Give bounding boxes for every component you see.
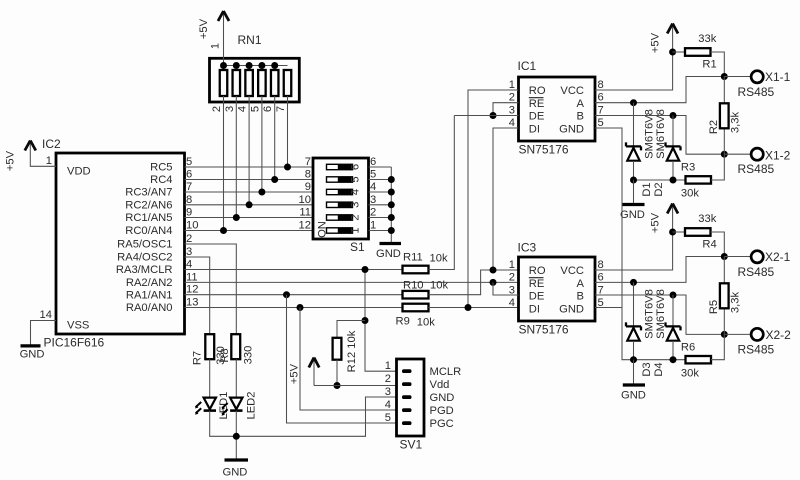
wire IC1 DE to R11 riser (454, 115, 518, 117)
junction D2 gnd (670, 177, 677, 184)
wire RA1/AN1 line to R10 (185, 294, 403, 296)
svg-text:5: 5 (350, 176, 362, 182)
junction X2-2 node (721, 331, 728, 338)
LED1 (195, 392, 230, 420)
SV1 pin marks (402, 369, 412, 425)
connector SV1 box (397, 359, 425, 452)
wire RA2/AN2 line to IC3 pin2 (185, 281, 519, 283)
svg-text:DE: DE (529, 291, 545, 303)
svg-text:Vdd: Vdd (430, 379, 450, 391)
resistor R9 (396, 304, 436, 329)
svg-text:D3: D3 (641, 362, 653, 376)
svg-text:3: 3 (224, 106, 236, 112)
ground at LEDs (223, 460, 249, 479)
junction RN1-RC4 (271, 176, 278, 183)
svg-text:30k: 30k (681, 188, 699, 200)
resistor R12 (333, 330, 358, 372)
IC3 inner pin labels (529, 265, 546, 315)
svg-text:8: 8 (598, 79, 604, 91)
svg-text:RA2/AN2: RA2/AN2 (126, 277, 173, 289)
svg-text:RC2/AN6: RC2/AN6 (125, 200, 172, 212)
svg-text:2: 2 (350, 214, 362, 220)
junction IC1 DI / IC3 RO (490, 267, 497, 274)
+5V supply symbol IC3 (650, 204, 679, 234)
wire RC5 line (pin5) (185, 166, 314, 168)
svg-text:1: 1 (46, 155, 52, 167)
svg-text:10k: 10k (430, 253, 448, 265)
svg-text:R9: R9 (396, 316, 410, 328)
resistor R11 (403, 252, 448, 274)
svg-text:RA0/AN0: RA0/AN0 (126, 302, 173, 314)
svg-text:RC3/AN7: RC3/AN7 (125, 187, 172, 199)
svg-text:5: 5 (186, 156, 192, 168)
S1 bus junctions (388, 176, 395, 234)
svg-text:VCC: VCC (560, 265, 584, 277)
wire R6 to X2-2 node (711, 334, 724, 359)
svg-text:RA1/AN1: RA1/AN1 (126, 289, 173, 301)
wire R4 to X2-1 node (711, 232, 725, 257)
svg-text:6: 6 (186, 169, 192, 181)
svg-text:SN75176: SN75176 (519, 143, 569, 157)
LED2 (222, 392, 258, 420)
svg-text:10: 10 (186, 220, 198, 232)
svg-text:GND: GND (20, 349, 45, 361)
wire IC1 RE tie (493, 103, 519, 116)
S1 switch element 5 (327, 176, 362, 182)
svg-text:3,3k: 3,3k (730, 292, 742, 314)
S1 switch element 6 (327, 164, 362, 170)
svg-text:10k: 10k (417, 317, 435, 329)
svg-text:D1: D1 (641, 182, 653, 196)
IC2 pin 14 VSS wire (31, 309, 57, 345)
resistor R1 33k (673, 33, 717, 71)
junction D4 on B line (670, 292, 677, 299)
resistor R4 33k (673, 213, 717, 251)
svg-text:R4: R4 (702, 239, 716, 251)
svg-text:1: 1 (509, 79, 515, 91)
svg-text:11: 11 (299, 207, 311, 219)
svg-text:VDD: VDD (67, 166, 91, 178)
svg-text:5: 5 (249, 106, 261, 112)
svg-text:12: 12 (299, 220, 311, 232)
svg-text:RS485: RS485 (738, 265, 775, 279)
resistor R10 (403, 280, 449, 299)
SV1 signal names (430, 366, 462, 430)
+5V supply symbol IC1 (650, 24, 679, 54)
svg-text:RO: RO (529, 265, 546, 277)
wire RA0/AN0 line to R9 (185, 307, 403, 309)
svg-text:12: 12 (186, 284, 198, 296)
svg-text:7: 7 (598, 105, 604, 117)
svg-text:RC0/AN4: RC0/AN4 (125, 225, 172, 237)
svg-text:RS485: RS485 (738, 343, 775, 357)
junction LED ground rail (233, 433, 240, 440)
connector X2-1 (724, 250, 790, 279)
svg-text:+5V: +5V (650, 32, 662, 53)
svg-text:D2: D2 (653, 182, 665, 196)
IC2 pin names (116, 162, 173, 315)
junction RN1-RC1 (233, 214, 240, 221)
svg-text:5: 5 (385, 412, 391, 424)
svg-text:4: 4 (509, 297, 515, 309)
svg-text:SM6T6V8: SM6T6V8 (644, 289, 656, 339)
resistor R3 30k (681, 162, 711, 200)
junction D3 on A line (630, 279, 637, 286)
svg-text:11: 11 (186, 271, 198, 283)
svg-text:X1-1: X1-1 (765, 70, 791, 84)
S1 switch element 2 (327, 214, 362, 220)
wire IC3 GND to tie (595, 308, 686, 360)
IC2 pin numbers right (186, 156, 198, 309)
wire IC3 A to X2-1 node (595, 257, 724, 283)
IC1 inner pin labels (529, 85, 546, 135)
svg-text:4: 4 (385, 399, 391, 411)
wire R12 bottom to +5V rail (336, 360, 338, 386)
svg-text:GND: GND (621, 390, 646, 402)
RN1 pin 3 wire (235, 96, 237, 218)
S1 switch element 1 (327, 227, 362, 233)
svg-text:8: 8 (305, 169, 311, 181)
svg-text:VSS: VSS (67, 320, 89, 332)
svg-text:9: 9 (305, 181, 311, 193)
svg-text:RO: RO (529, 85, 546, 97)
svg-text:10k: 10k (430, 280, 448, 292)
svg-text:VCC: VCC (560, 85, 584, 97)
wire R12 top branch (337, 321, 365, 339)
svg-text:3,3k: 3,3k (730, 112, 742, 134)
svg-text:R6: R6 (681, 342, 695, 354)
svg-text:6: 6 (370, 156, 376, 168)
RN1 pin 7 wire (287, 96, 289, 167)
svg-text:RS485: RS485 (738, 162, 775, 176)
+5V supply symbol at RN1 (198, 11, 229, 66)
svg-text:1: 1 (350, 227, 362, 233)
wire R9 to IC3 DI (429, 307, 519, 309)
wire RC0 line (pin10) (185, 230, 314, 232)
svg-text:+5V: +5V (650, 212, 662, 233)
wire RA3/MCLR line to R11 (185, 269, 403, 271)
svg-text:RA5/OSC1: RA5/OSC1 (117, 239, 172, 251)
svg-text:+5V: +5V (198, 18, 210, 39)
diode D1 SM6T6V8 (626, 103, 641, 180)
RN1 pin 2 wire (223, 96, 225, 231)
svg-text:6: 6 (262, 106, 274, 112)
svg-text:8: 8 (598, 259, 604, 271)
wire RC2 line (pin8) (185, 204, 314, 206)
S1 right pin numbers (370, 156, 376, 232)
wire IC1 GND down to IC3 GND (595, 128, 622, 308)
svg-text:7: 7 (275, 106, 287, 112)
svg-text:1: 1 (370, 220, 376, 232)
svg-text:R10: R10 (403, 280, 424, 292)
svg-text:33k: 33k (698, 33, 716, 45)
RN1 resistor elements (220, 70, 292, 96)
wire IC1 VCC (595, 26, 673, 90)
junction D1 gnd (630, 177, 637, 184)
svg-text:SM6T6V8: SM6T6V8 (655, 289, 667, 339)
svg-text:5: 5 (370, 169, 376, 181)
wire RC1 line (pin9) (185, 217, 314, 219)
svg-text:13: 13 (186, 297, 198, 309)
junction D2 on B line (670, 112, 677, 119)
S1 left pin numbers (299, 156, 311, 232)
resistor network RN1 box (210, 33, 300, 102)
IC1 pin numbers (509, 79, 515, 129)
wire IC1 RO to R9 line (468, 90, 519, 308)
+5V supply symbol at IC2 (5, 141, 36, 172)
wire SV1 GND to LED ground rail (209, 397, 396, 436)
connector X2-2 (724, 328, 791, 357)
RN1 pin labels 2-7 (211, 106, 287, 112)
svg-text:SN75176: SN75176 (519, 323, 569, 337)
svg-text:RE: RE (529, 278, 545, 290)
svg-text:14: 14 (40, 309, 52, 321)
junction IC1 RO / R9 net (465, 304, 472, 311)
svg-text:RA3/MCLR: RA3/MCLR (116, 264, 173, 276)
ground at D3/D4 (621, 360, 646, 402)
svg-text:R3: R3 (681, 162, 695, 174)
junction PGC on RA1 line (283, 291, 290, 298)
junction X2-1 node (721, 253, 728, 260)
svg-text:4: 4 (186, 259, 192, 271)
wire +5V to SV1 Vdd (314, 385, 397, 387)
svg-text:R5: R5 (708, 300, 720, 314)
svg-text:X2-1: X2-1 (765, 250, 791, 264)
svg-text:SV1: SV1 (400, 438, 423, 452)
svg-text:DI: DI (529, 303, 540, 315)
wire RA5/OSC1 to R8 (185, 244, 237, 334)
svg-text:3: 3 (509, 105, 515, 117)
op IC3 SN75176 box (518, 241, 596, 337)
junction RN1-RC3 (258, 189, 265, 196)
svg-text:2: 2 (186, 233, 192, 245)
svg-text:PGD: PGD (430, 405, 454, 417)
junction D4 gnd (670, 356, 677, 363)
svg-text:7: 7 (186, 181, 192, 193)
svg-text:RS485: RS485 (738, 85, 775, 99)
junction R12 top branch (362, 317, 369, 324)
RN1 pin 4 wire (248, 96, 250, 205)
svg-text:2: 2 (509, 92, 515, 104)
svg-text:2: 2 (211, 106, 223, 112)
IC3 pin numbers (509, 259, 515, 309)
junction X1-1 node (721, 73, 728, 80)
svg-text:9: 9 (186, 207, 192, 219)
svg-text:X1-2: X1-2 (765, 149, 791, 163)
diode D4 SM6T6V8 (666, 295, 681, 360)
wire IC3 B jog to X2-2 node (595, 295, 724, 334)
svg-text:3: 3 (370, 194, 376, 206)
svg-text:GND: GND (430, 392, 455, 404)
junction MCLR branch (362, 266, 369, 273)
svg-text:A: A (577, 278, 585, 290)
svg-text:R11: R11 (403, 252, 423, 264)
junction +5V / R1 (669, 49, 676, 56)
svg-text:GND: GND (376, 248, 401, 260)
svg-text:MCLR: MCLR (430, 366, 462, 378)
svg-text:6: 6 (598, 92, 604, 104)
svg-text:R7: R7 (192, 351, 204, 365)
svg-text:4: 4 (370, 181, 376, 193)
wire IC1 A to X1-1 node (595, 77, 724, 103)
junction D1 on A line (630, 99, 637, 106)
svg-text:7: 7 (305, 156, 311, 168)
svg-text:10: 10 (299, 194, 311, 206)
diode D2 SM6T6V8 (666, 116, 681, 181)
junction RA2 at IC3 RE (490, 279, 497, 286)
svg-text:SM6T6V8: SM6T6V8 (644, 109, 656, 159)
svg-text:R8: R8 (219, 348, 231, 362)
svg-text:RA4/OSC2: RA4/OSC2 (117, 252, 172, 264)
svg-text:330: 330 (243, 346, 255, 365)
wire PGD to SV1 (300, 308, 397, 411)
svg-text:8: 8 (186, 194, 192, 206)
ground at D1/D2 (620, 180, 645, 221)
svg-text:3: 3 (350, 202, 362, 208)
RN1 bus junctions (220, 62, 278, 69)
svg-text:+5V: +5V (5, 150, 17, 171)
connector X1-1 (724, 70, 790, 99)
S1 switch element 3 (327, 202, 362, 208)
junction RN1-RC0 (220, 227, 227, 234)
svg-text:GND: GND (559, 123, 584, 135)
wire R8 to LED2 (235, 359, 237, 397)
svg-text:1: 1 (509, 259, 515, 271)
wire IC1 B jog to X1-2 node (595, 116, 724, 155)
junction +5V / R4 (669, 229, 676, 236)
svg-text:IC1: IC1 (518, 59, 537, 73)
svg-text:IC3: IC3 (518, 241, 537, 255)
wire PGC to SV1 (287, 295, 397, 423)
junction IC1 RE/DE (490, 112, 497, 119)
svg-text:RC1/AN5: RC1/AN5 (125, 212, 172, 224)
svg-text:+5V: +5V (289, 363, 301, 384)
resistor R6 30k (681, 342, 711, 380)
resistor R5 3,3k (708, 257, 742, 335)
wire R10 to IC3 RO net (429, 270, 519, 295)
svg-text:4: 4 (350, 189, 362, 195)
wire LED1 cathode (209, 411, 211, 437)
IC2 PIC16F616 box (42, 137, 185, 350)
DIP switch S1 box (313, 158, 369, 254)
svg-text:4: 4 (509, 117, 515, 129)
connector X1-2 (724, 148, 790, 176)
D3/D4 labels (641, 289, 667, 377)
wire D1-D2 ground tie to R3 (634, 179, 686, 181)
svg-text:PIC16F616: PIC16F616 (44, 336, 105, 350)
svg-text:RC5: RC5 (150, 162, 172, 174)
svg-text:X2-2: X2-2 (766, 328, 792, 342)
svg-text:1: 1 (210, 43, 222, 49)
svg-text:2: 2 (509, 272, 515, 284)
IC2 pin 1 VDD wire (30, 152, 56, 167)
D1/D2 labels (641, 109, 667, 197)
svg-text:DI: DI (529, 123, 540, 135)
junction R12/Vdd rail (334, 382, 341, 389)
+5V supply symbol near SV1 (289, 358, 320, 386)
S1 ground bus wire (390, 167, 392, 243)
svg-text:RN1: RN1 (238, 33, 262, 47)
wire LED2 cathode to ground (235, 411, 237, 459)
svg-text:IC2: IC2 (42, 137, 61, 151)
svg-text:30k: 30k (681, 368, 699, 380)
diode D3 SM6T6V8 (626, 282, 641, 359)
junction D3 gnd (630, 356, 637, 363)
RN1 pin 6 wire (274, 96, 276, 180)
svg-text:GND: GND (559, 303, 584, 315)
svg-text:6: 6 (350, 164, 362, 170)
svg-text:DE: DE (529, 111, 545, 123)
junction RN1-RC2 (246, 201, 253, 208)
svg-text:B: B (577, 111, 584, 123)
op IC1 SN75176 box (518, 59, 596, 157)
wire RC3 line (pin7) (185, 191, 314, 193)
svg-text:R1: R1 (702, 59, 716, 71)
svg-text:LED2: LED2 (246, 392, 258, 420)
svg-text:3: 3 (385, 386, 391, 398)
wire MCLR vertical to SV1 (365, 270, 397, 372)
svg-text:A: A (577, 98, 585, 110)
svg-text:R12 10k: R12 10k (346, 330, 358, 372)
wire R11 to IC1 RE/DE (429, 116, 455, 270)
wire IC3 VCC (595, 206, 673, 270)
svg-text:S1: S1 (350, 240, 365, 254)
ground at IC2 (20, 346, 45, 361)
SV1 pin numbers (385, 360, 391, 424)
svg-text:B: B (577, 291, 584, 303)
wire IC3 RE/DE tie (493, 282, 519, 295)
wire R7 to LED1 (209, 359, 211, 397)
svg-text:SM6T6V8: SM6T6V8 (655, 109, 667, 159)
junction X1-2 node (721, 151, 728, 158)
svg-text:GND: GND (620, 209, 645, 221)
svg-text:4: 4 (237, 106, 249, 112)
ground at S1 (376, 244, 401, 261)
svg-text:RE: RE (529, 98, 545, 110)
RN1 pin 5 wire (261, 96, 263, 192)
resistor R2 3,3k (708, 77, 742, 155)
svg-text:R2: R2 (708, 120, 720, 134)
junction RN1-RC5 (284, 164, 291, 171)
svg-text:5: 5 (598, 117, 604, 129)
svg-text:33k: 33k (698, 213, 716, 225)
S1 switch element 4 (327, 189, 362, 195)
wire RA4/OSC2 to R7 (185, 257, 210, 334)
resistor R7 (192, 334, 215, 365)
junction PGD on RA0 line (297, 304, 304, 311)
S1 right stub wires (369, 167, 392, 231)
wire RC4 line (pin6) (185, 179, 314, 181)
RN1 common bus (224, 65, 288, 67)
svg-text:GND: GND (223, 467, 248, 479)
wire IC1 DI down to IC3 RO net (493, 128, 519, 270)
resistor R8 (215, 334, 255, 365)
wire R1 to X1-1 node (711, 52, 725, 77)
wire R3 to X1-2 node (711, 154, 724, 180)
svg-text:1: 1 (385, 360, 391, 372)
svg-text:D4: D4 (653, 362, 665, 376)
svg-text:PGC: PGC (430, 418, 454, 430)
svg-text:3: 3 (186, 246, 192, 258)
svg-text:2: 2 (370, 207, 376, 219)
svg-text:2: 2 (385, 373, 391, 385)
svg-text:RC4: RC4 (150, 174, 172, 186)
